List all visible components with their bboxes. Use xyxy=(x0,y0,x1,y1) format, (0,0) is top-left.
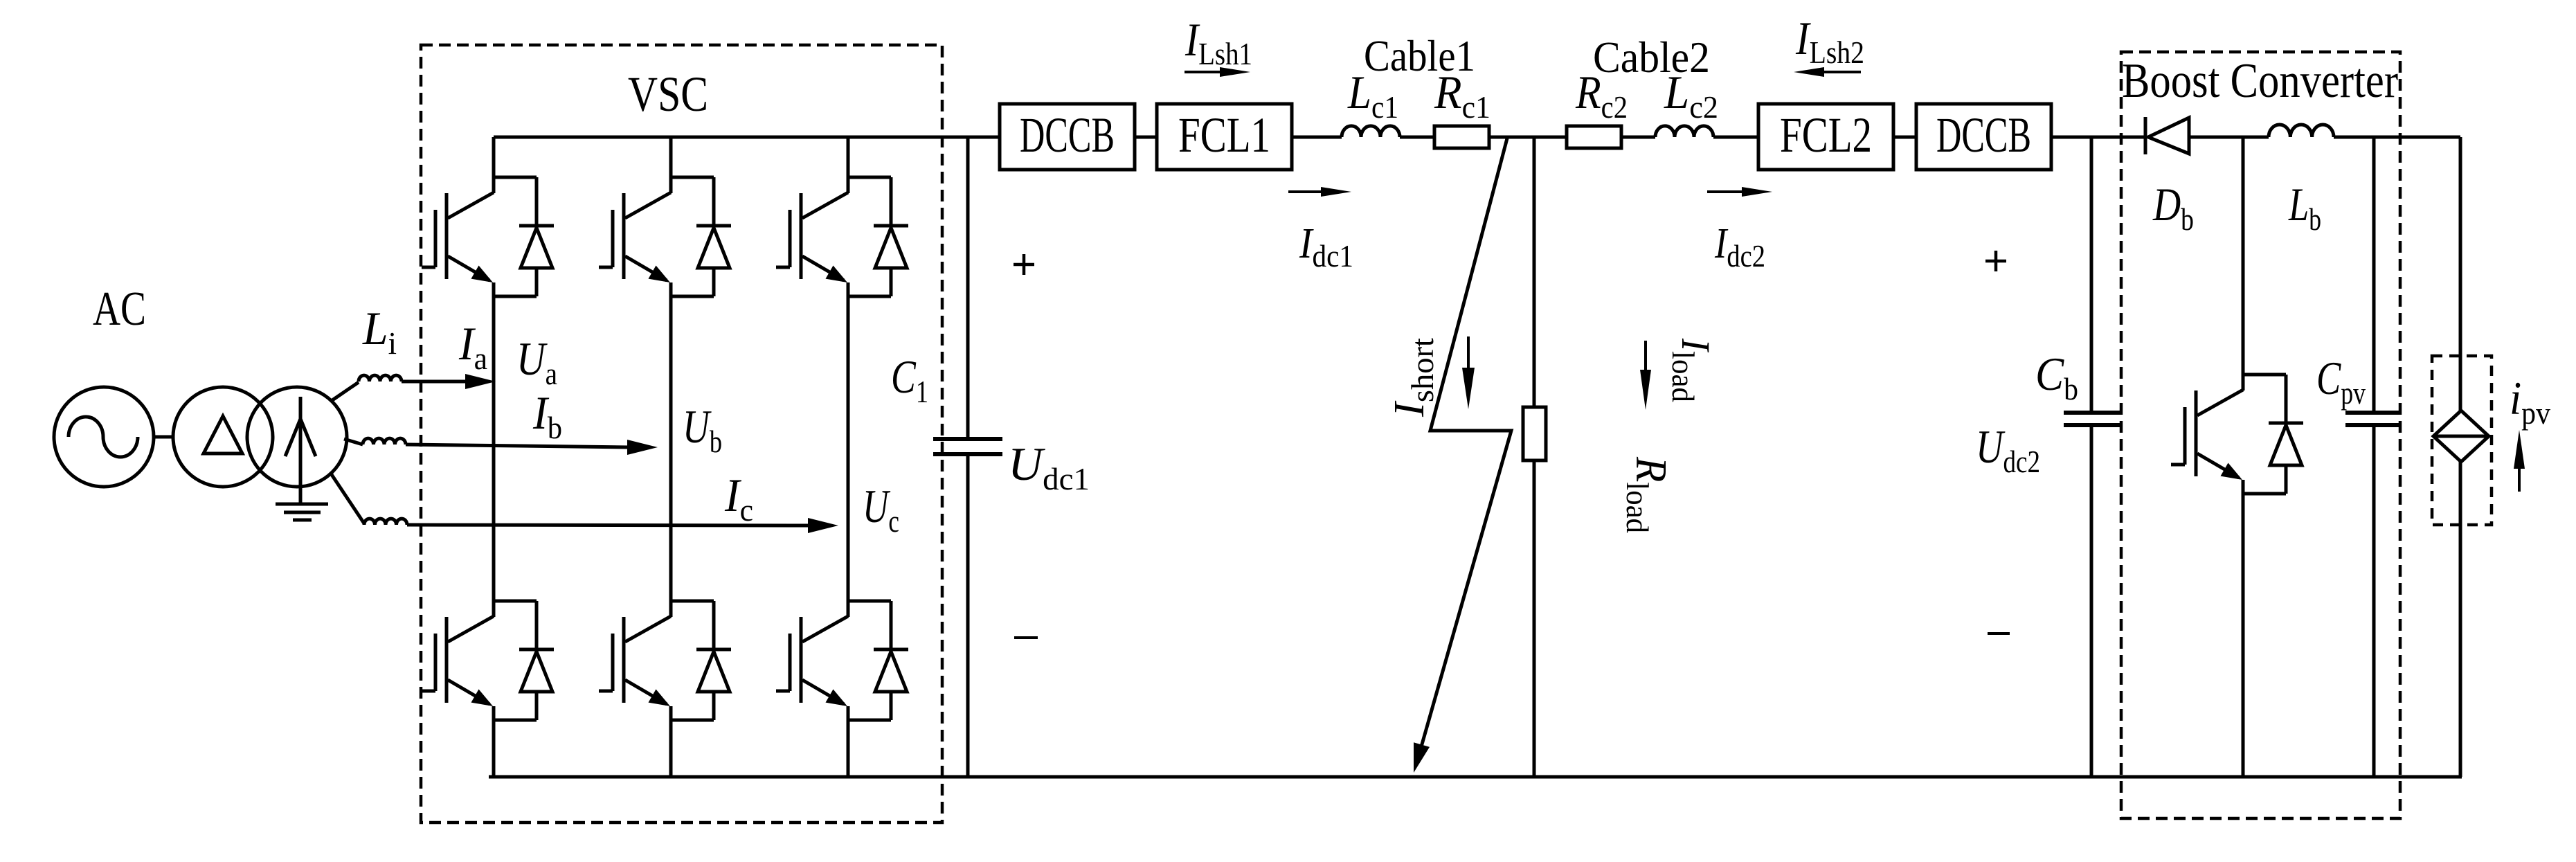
wire leg A upper xyxy=(492,137,496,193)
transformer T1 wye winding xyxy=(247,387,347,487)
wire leg B upper xyxy=(669,137,673,193)
transistor Q4 (IGBT) xyxy=(494,600,537,603)
diode D3 (freewheeling) xyxy=(890,177,893,226)
wire DCCB2 to Db xyxy=(2051,136,2145,139)
svg-text:VSC: VSC xyxy=(628,66,708,122)
wire Rc2-Lc2 xyxy=(1621,136,1655,139)
label Iload xyxy=(1666,338,1718,402)
inductor Li phase b xyxy=(344,439,363,445)
transformer T1 delta winding xyxy=(173,387,273,487)
wire phase b with Ib arrow xyxy=(406,445,630,447)
wire bottom bus xyxy=(489,775,2462,779)
label minus Udc2 xyxy=(1988,632,2010,635)
label minus Udc1 xyxy=(1014,636,1038,639)
wire FCL1 to Lc1 xyxy=(1292,136,1342,139)
wire Lc2-FCL2 xyxy=(1713,136,1758,139)
wire leg C upper xyxy=(847,137,850,193)
wire G1 to T1 xyxy=(154,436,174,439)
capacitor C1 xyxy=(933,437,1002,441)
transistor Q3 (IGBT) xyxy=(848,176,891,179)
wire C1 branch bottom xyxy=(966,454,970,777)
wire leg A lower xyxy=(492,706,496,777)
arrow Iload xyxy=(1644,341,1647,374)
resistor Rc2 xyxy=(1567,126,1621,148)
transistor Q1 (IGBT) xyxy=(494,176,537,179)
wire phase c with Ic arrow xyxy=(407,525,812,526)
wire right vertical lower xyxy=(2459,462,2462,777)
arrow Idc2 xyxy=(1707,190,1746,193)
svg-text:Cable2: Cable2 xyxy=(1593,33,1710,82)
arrow Idc1 xyxy=(1288,190,1327,193)
diode Db xyxy=(2144,117,2147,154)
wire Lc1-Rc1 xyxy=(1400,136,1434,139)
VSC converter boundary xyxy=(421,45,942,823)
wire Rload lower xyxy=(1533,460,1536,777)
label plus Udc1 xyxy=(1014,263,1034,267)
svg-text:DCCB: DCCB xyxy=(1020,107,1115,163)
short-circuit fault bolt xyxy=(1418,138,1511,759)
arrow Ishort xyxy=(1467,336,1470,372)
arrow ILsh2 xyxy=(1821,71,1861,73)
wire Rc1 to Rc2 xyxy=(1489,136,1567,139)
arrow ipv xyxy=(2518,467,2521,492)
diode D7 (boost freewheeling) xyxy=(2285,375,2288,423)
svg-text:FCL1: FCL1 xyxy=(1178,107,1270,163)
wire Rload upper xyxy=(1533,137,1536,407)
diode D5 (freewheeling) xyxy=(712,601,716,649)
wire Lb to corner xyxy=(2334,136,2460,139)
transistor Q2 (IGBT) xyxy=(671,176,714,179)
wire FCL2-DCCB2 xyxy=(1893,136,1916,139)
label plus Udc2 xyxy=(1985,260,2006,263)
capacitor Cpv xyxy=(2345,411,2401,415)
resistor Rload xyxy=(1523,407,1546,460)
wire DCCB1-FCL1 xyxy=(1135,136,1157,139)
wire C1 branch top xyxy=(966,137,970,439)
wire Cb branch top xyxy=(2090,137,2093,413)
resistor Rc1 xyxy=(1434,126,1489,148)
svg-text:FCL2: FCL2 xyxy=(1780,107,1872,163)
wire boost switch upper xyxy=(2242,137,2245,390)
svg-text:Boost Converter: Boost Converter xyxy=(2122,54,2398,108)
current source ipv xyxy=(2433,411,2489,462)
diode D6 (freewheeling) xyxy=(890,601,893,649)
wire leg B lower xyxy=(669,706,673,777)
inductor Lc1 xyxy=(1342,126,1400,137)
inductor Lb xyxy=(2269,125,2334,137)
diode D2 (freewheeling) xyxy=(712,177,716,226)
wire leg C lower xyxy=(847,706,850,777)
breaker DCCB2 xyxy=(1916,104,2051,170)
transistor Q5 (IGBT) xyxy=(671,600,714,603)
breaker DCCB1 xyxy=(1000,104,1135,170)
wire Cpv branch bottom xyxy=(2372,425,2376,777)
AC voltage source G1 xyxy=(54,387,154,487)
wire Cb branch bottom xyxy=(2090,425,2093,777)
wire Cpv branch top xyxy=(2372,137,2376,413)
inductor Li phase a xyxy=(332,382,359,400)
arrow ILsh1 xyxy=(1185,71,1225,73)
PV source boundary xyxy=(2432,356,2492,525)
transistor Q6 (IGBT) xyxy=(848,600,891,603)
diode D1 (freewheeling) xyxy=(535,177,539,226)
wire Db to Lb xyxy=(2189,136,2269,139)
limiter FCL2 xyxy=(1758,104,1893,170)
ground xyxy=(276,503,328,506)
wire right vertical upper xyxy=(2459,137,2462,411)
label Rload xyxy=(1620,456,1676,533)
wire leg A middle xyxy=(492,282,496,617)
wire leg B middle xyxy=(669,282,673,617)
wire boost switch lower xyxy=(2242,480,2245,777)
inductor Li phase c xyxy=(331,474,364,523)
capacitor Cb xyxy=(2064,411,2121,415)
limiter FCL1 xyxy=(1157,104,1292,170)
wire phase a with Ia arrow xyxy=(402,380,469,384)
inductor Lc2 xyxy=(1655,126,1713,137)
svg-text:DCCB: DCCB xyxy=(1936,107,2031,163)
wire leg C middle xyxy=(847,282,850,617)
label Ishort xyxy=(1386,338,1440,417)
diode D4 (freewheeling) xyxy=(535,601,539,649)
svg-text:AC: AC xyxy=(93,282,146,336)
transistor Q7 (boost IGBT) xyxy=(2243,373,2286,377)
wire top bus VSC xyxy=(494,136,1000,139)
Boost Converter boundary xyxy=(2121,52,2400,818)
